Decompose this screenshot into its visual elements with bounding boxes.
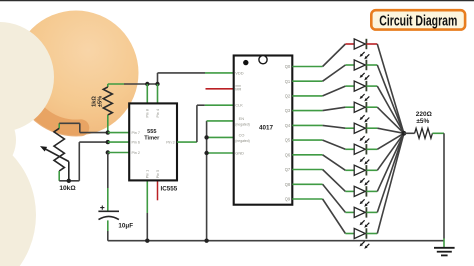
LED D6 — [354, 144, 369, 165]
wire pot bottom — [59, 142, 108, 181]
wire LED1 to resistor — [366, 44, 404, 133]
resistor R1 1k — [103, 84, 112, 133]
wire pin7 — [108, 132, 129, 134]
wire cap to rail — [107, 220, 109, 240]
wire Q5 to LED6 — [292, 140, 354, 149]
wire resistor to ground — [443, 133, 445, 247]
wire 555 pin5 stub — [157, 180, 159, 200]
wire LED6 to resistor — [366, 133, 404, 149]
wire Q7 to LED8 — [292, 170, 354, 192]
wire pin3 to clk — [177, 105, 234, 142]
svg-text:EN: EN — [239, 116, 245, 121]
svg-text:Q0: Q0 — [285, 64, 291, 69]
node pin2 junction — [106, 150, 110, 154]
svg-text:Q9: Q9 — [285, 197, 291, 202]
svg-text:555: 555 — [147, 129, 156, 135]
wire 555 pin1 — [146, 180, 148, 240]
wire Q2 to LED3 — [292, 86, 354, 96]
svg-text:VDD: VDD — [235, 71, 243, 76]
wire 555 pin4 — [157, 84, 159, 103]
wire pin6 — [108, 141, 129, 143]
svg-text:Circuit Diagram: Circuit Diagram — [379, 14, 457, 30]
node wiper junction — [67, 179, 71, 183]
svg-text:Q7: Q7 — [285, 167, 291, 172]
svg-text:Pin 2: Pin 2 — [132, 151, 140, 155]
svg-text:(negated): (negated) — [235, 123, 250, 127]
wire MR stub — [206, 88, 234, 90]
wire pin2 — [108, 152, 129, 154]
svg-text:Q6: Q6 — [285, 152, 291, 157]
LED D3 — [354, 81, 369, 102]
wire Q8 to LED9 — [292, 184, 354, 212]
svg-text:Pin 6: Pin 6 — [132, 141, 140, 145]
wire cap branch — [107, 153, 109, 211]
svg-text:CO: CO — [239, 133, 245, 138]
svg-text:Q2: Q2 — [285, 94, 291, 99]
wire LED5 to resistor — [366, 128, 404, 133]
ground — [434, 248, 455, 256]
LED D8 — [354, 186, 369, 207]
wire Q0 to LED1 — [292, 44, 354, 67]
node CO junction — [204, 135, 208, 139]
wire LED7 to resistor — [366, 133, 404, 170]
svg-text:Pin 4: Pin 4 — [156, 109, 160, 117]
svg-text:MR: MR — [235, 86, 241, 91]
svg-text:Pin 5: Pin 5 — [156, 170, 160, 178]
LED D5 — [354, 123, 369, 144]
wire Q1 to LED2 — [292, 65, 354, 81]
svg-text:Q1: Q1 — [285, 79, 291, 84]
wire 555 pin8 — [146, 84, 148, 103]
node pin4 junction — [155, 82, 159, 86]
node pin6 junction — [106, 140, 110, 144]
svg-text:Pin 3: Pin 3 — [166, 141, 174, 145]
wire LED8 to resistor — [366, 133, 404, 191]
node bus rail junction — [204, 239, 208, 243]
wire LED9 to resistor — [366, 133, 404, 212]
svg-text:1kΩ±5%: 1kΩ±5% — [92, 96, 104, 107]
LED D10 — [354, 228, 369, 249]
svg-text:±5%: ±5% — [416, 118, 429, 125]
svg-text:IC555: IC555 — [161, 185, 178, 192]
svg-text:Timer: Timer — [144, 135, 160, 141]
node GND junction — [204, 151, 208, 155]
svg-text:Q8: Q8 — [285, 182, 291, 187]
LED D1 — [354, 39, 369, 60]
wire Q6 to LED7 — [292, 155, 354, 171]
capacitor C1 10uF — [98, 206, 119, 220]
svg-text:Pin 1: Pin 1 — [146, 170, 150, 178]
svg-text:Q4: Q4 — [285, 123, 291, 128]
wiper arrow — [40, 146, 69, 181]
node pin1 rail junction — [145, 239, 149, 243]
svg-text:(negated): (negated) — [235, 139, 250, 143]
node led common — [402, 131, 407, 136]
svg-text:Q3: Q3 — [285, 108, 291, 113]
node pin8 junction — [145, 82, 149, 86]
svg-text:Pin 8: Pin 8 — [146, 109, 150, 117]
label circuit diagram badge — [371, 10, 465, 29]
wire VDD 4017 — [158, 72, 234, 74]
LED D9 — [354, 207, 369, 228]
svg-text:10μF: 10μF — [118, 223, 133, 230]
wire VCC rail to 555 — [108, 73, 158, 84]
wire pot top to pin7 — [59, 123, 108, 132]
potentiometer RV1 10k — [54, 123, 64, 181]
svg-text:10kΩ: 10kΩ — [59, 185, 76, 192]
LED D2 — [354, 60, 369, 81]
LED D4 — [354, 102, 369, 123]
svg-text:Pin 7: Pin 7 — [132, 131, 140, 135]
wire Q3 to LED4 — [292, 107, 354, 110]
IC U2 4017 — [234, 56, 293, 205]
LED D7 — [354, 165, 369, 186]
wire LED2 to resistor — [366, 65, 404, 133]
wire Q4 to LED5 — [292, 125, 354, 128]
wire Q9 to LED10 — [292, 199, 354, 234]
svg-text:GND: GND — [235, 151, 244, 156]
resistor R2 220 — [404, 128, 444, 138]
op-amp U1 555 timer — [129, 103, 177, 180]
wire LED4 to resistor — [366, 107, 404, 133]
svg-text:Q5: Q5 — [285, 138, 291, 143]
wire ground rail — [108, 240, 444, 242]
node pin7 junction — [106, 130, 110, 134]
wire LED3 to resistor — [366, 86, 404, 133]
svg-text:CLK: CLK — [235, 103, 243, 108]
svg-text:4017: 4017 — [259, 125, 274, 132]
wire enable bus — [207, 121, 234, 241]
wire LED10 to resistor — [366, 133, 404, 233]
